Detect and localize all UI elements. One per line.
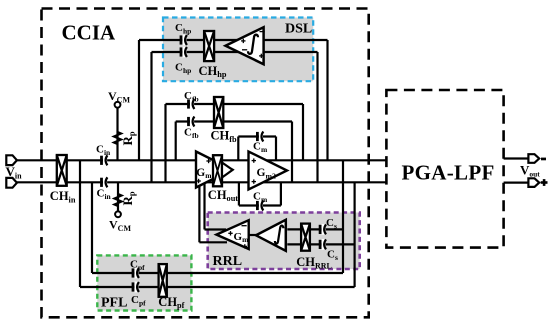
svg-text:CCIA: CCIA bbox=[62, 21, 117, 45]
svg-text:DSL: DSL bbox=[285, 22, 312, 37]
svg-text:RRL: RRL bbox=[213, 254, 243, 269]
svg-text:PGA-LPF: PGA-LPF bbox=[402, 160, 495, 184]
svg-text:PFL: PFL bbox=[101, 296, 127, 311]
